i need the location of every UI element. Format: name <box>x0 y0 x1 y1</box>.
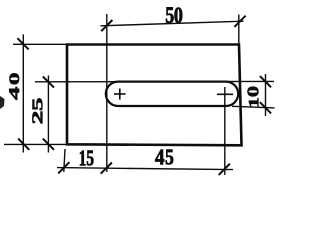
slot outline <box>106 82 238 106</box>
extension line below plate bottom-left corner <box>64 149 65 172</box>
tick at 25 bottom <box>43 139 54 150</box>
dimension line 40 (left) <box>22 34 24 152</box>
crosshair slot right center <box>217 93 233 95</box>
dim label 10 (rotated) <box>249 98 258 106</box>
extension line from slot right center down <box>224 87 226 175</box>
scan smudge at left edge <box>0 96 5 109</box>
tick at 50 left end <box>101 20 112 31</box>
extension line left of plate top corner <box>13 43 67 45</box>
dim label 40 (rotated) <box>9 87 19 100</box>
dimension line 25 (left inner) <box>47 76 49 153</box>
extension line through slot left tangent (vertical x=106.8) <box>106 14 108 172</box>
tick at 50 right end <box>234 16 245 27</box>
plate outline <box>67 45 242 146</box>
dim label 45 <box>155 150 164 165</box>
tick at bottom dim right end <box>219 164 230 175</box>
extension line slot bottom level right side <box>232 106 275 108</box>
tick at 25 top <box>43 76 54 87</box>
tick at bottom dim left end <box>58 162 69 173</box>
dimension line 15/45 (bottom) <box>57 168 233 170</box>
dim label 50 <box>166 7 174 22</box>
dim label 25 (rotated) <box>32 112 42 124</box>
dimension line 50 (top) <box>101 21 244 26</box>
dim label 15 <box>80 151 85 166</box>
tick at 10 top <box>260 76 271 87</box>
extension line above plate right edge <box>238 15 240 46</box>
tick at 40 bottom <box>18 139 29 150</box>
tick at bottom dim middle <box>101 163 112 174</box>
extension line slot top level (y=81.6) <box>35 80 274 82</box>
dimension line 10 (right) <box>265 74 267 116</box>
tick at 40 top <box>17 38 28 49</box>
crosshair slot left center <box>114 93 126 95</box>
tick at 10 bottom <box>260 102 271 113</box>
extension line left of plate bottom corner <box>4 143 67 145</box>
